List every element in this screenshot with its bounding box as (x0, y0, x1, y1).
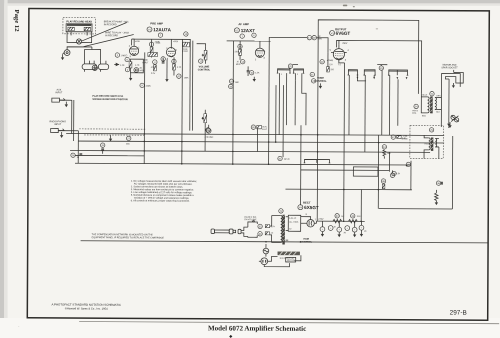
tone control ground (319, 83, 322, 88)
svg-text:560: 560 (387, 153, 390, 155)
pin ref circle below V1 label (158, 33, 162, 37)
wire vertical can leg c (282, 85, 284, 157)
output transformer T1 designator (430, 91, 434, 95)
smudge marks top margin (343, 5, 379, 30)
filter resistor Rb (348, 214, 361, 223)
svg-text:1. DC voltage measurements ta: 1. DC voltage measurements taken with va… (131, 180, 197, 183)
speaker dashed box (410, 125, 444, 158)
svg-text:3. Measured values are from s: 3. Measured values are from socket pin t… (131, 188, 194, 191)
connector bracket P1B (293, 69, 307, 125)
grid leak V2 bottom (229, 79, 239, 84)
ground at connector (452, 83, 455, 88)
svg-text:BREAK AT POINT - MIC: BREAK AT POINT - MIC (104, 20, 129, 23)
right lower refs cluster b (390, 170, 400, 177)
fuse holder (263, 244, 269, 257)
bottom refs stage1 (205, 125, 215, 139)
svg-text:IN RECORD: IN RECORD (104, 24, 117, 26)
wire vertical supply mid (300, 125, 302, 205)
wire vertical stage2 right column (268, 41, 271, 164)
wire V2 to V3 coupling (269, 37, 328, 52)
potentiometer arrow P1 (114, 63, 125, 67)
plate resistor V2 (235, 41, 243, 60)
microphone leads (67, 32, 92, 43)
switch wafer S1A (82, 61, 97, 72)
dual electrolytic ref (251, 125, 268, 131)
grid resistor V2 (236, 59, 245, 65)
speaker ref (429, 128, 433, 132)
svg-text:FIELD: FIELD (424, 143, 430, 145)
svg-text:2. Socket connections are sho: 2. Socket connections are shown as botto… (131, 185, 184, 188)
ground below twisted pair (448, 122, 451, 128)
footer credit text (51, 303, 121, 311)
callout line 1 (82, 22, 127, 41)
wire vertical can leg b (275, 85, 277, 142)
filter wire (316, 221, 364, 223)
bus component cap C at 101 (100, 143, 104, 154)
microphone inner box (66, 24, 92, 32)
coupling refs between V2 and V3 (307, 35, 322, 40)
wire vertical right col b (388, 152, 390, 171)
switch position note (92, 95, 128, 101)
ground at mic jack (61, 55, 64, 61)
ref above stage2 column (229, 84, 233, 88)
ground at aux jack (65, 102, 68, 108)
svg-text:6. All controls at minimum,: 6. All controls at minimum, proper outpu… (131, 199, 190, 202)
coupling cap C2 (161, 57, 165, 63)
tube designator V2 12AX7 (234, 28, 255, 33)
svg-text:6.3V AC: 6.3V AC (289, 217, 297, 220)
wire vertical can leg a (256, 125, 258, 151)
wire horizontal right low (379, 208, 453, 210)
svg-text:470K: 470K (135, 41, 140, 43)
wire mic line (67, 47, 92, 50)
cathode resistor V2 (249, 71, 260, 75)
bus ref 56K (126, 136, 131, 145)
speaker plug ref (377, 65, 387, 136)
svg-text:SHOWN IN RECORD POSITION: SHOWN IN RECORD POSITION (92, 98, 128, 101)
callout line 2 (84, 34, 134, 47)
wire stage1 plate rail (132, 38, 191, 40)
cathode network V3 (327, 67, 335, 72)
resistor hatched horizontal stage1 (148, 53, 158, 57)
wire vertical right col a (377, 135, 379, 208)
wire V1a plate to rail (132, 39, 135, 45)
svg-text:MEG: MEG (236, 64, 241, 66)
bus ref left (71, 153, 82, 159)
svg-text:THE COMPENSATION NETWORK IS: THE COMPENSATION NETWORK IS MOUNTED ON T… (92, 233, 154, 236)
svg-text:275V: 275V (318, 219, 324, 221)
svg-text:CONTROL: CONTROL (300, 241, 312, 244)
V3 pin label T-2 (338, 64, 342, 66)
plate resistor R2 (149, 39, 160, 57)
ground at phono jack (60, 132, 63, 138)
svg-text:CONTROL: CONTROL (198, 68, 211, 71)
wire vertical filter b (360, 190, 362, 222)
wire vertical stage2 column (232, 41, 235, 164)
svg-text:220K: 220K (235, 51, 240, 53)
wire horizontal supply mid (285, 188, 411, 191)
switch hub (92, 65, 97, 70)
microphone dashed enclosure (63, 18, 96, 34)
svg-text:EQUIPMENT PANEL IF REQUIRED: EQUIPMENT PANEL IF REQUIRED TO REPLACE T… (92, 236, 165, 239)
volume control pot (202, 110, 207, 128)
rectifier socket box (288, 215, 300, 231)
svg-text:470 MMF: 470 MMF (205, 137, 215, 139)
svg-text:COIL: COIL (412, 113, 416, 115)
right lower cap (436, 181, 442, 185)
wire B+ rail to output transformer (336, 40, 421, 93)
mid ref np20 (278, 156, 291, 160)
coupling cap to V2 (183, 32, 190, 53)
bottom right small box (353, 167, 378, 176)
capacitor C1 (125, 67, 129, 71)
wire vertical aux column a (71, 100, 73, 133)
sheet number 297-B (450, 310, 467, 317)
switch wafer S1B (98, 61, 108, 72)
cathode resistor V1b (172, 57, 182, 75)
value labels stage1 rail (135, 41, 179, 45)
triode V1a (129, 43, 140, 58)
microphone element right (84, 27, 90, 30)
cathode bypass ref (134, 68, 145, 73)
svg-text:RADIO-PHONO: RADIO-PHONO (49, 120, 66, 123)
output voltage label (318, 219, 324, 221)
svg-text:4. Line voltage maintained at: 4. Line voltage maintained at 117 volts … (131, 191, 193, 194)
svg-text:AF AMP: AF AMP (238, 22, 249, 26)
right lower resistor to ground (435, 190, 439, 205)
svg-text:20: 20 (344, 232, 346, 234)
svg-text:SPKR SOCKET: SPKR SOCKET (441, 67, 458, 69)
callout text 2 (105, 31, 129, 37)
wire volume top (197, 44, 206, 46)
svg-text:1.2K: 1.2K (255, 72, 260, 74)
tube designator V1 12AU7A (147, 27, 172, 32)
wire bus 4 (75, 163, 411, 165)
aux input jack J2 (52, 88, 72, 102)
ground V2 (253, 77, 256, 82)
power transformer T2 (270, 215, 289, 245)
svg-text:297-B: 297-B (450, 310, 467, 317)
stage label PRE AMP (150, 21, 163, 25)
svg-text:IN RECORD: IN RECORD (105, 35, 118, 37)
phono cartridge plug drawing (211, 227, 248, 236)
filter resistor Ra (333, 214, 344, 223)
line filter components (265, 225, 275, 235)
connector legs down (441, 85, 449, 127)
filter cap Cd (344, 226, 350, 235)
svg-text:GRN: GRN (436, 95, 441, 97)
on-off switch label (244, 217, 257, 221)
on-off switch box (248, 220, 257, 237)
svg-text:20: 20 (364, 231, 366, 233)
resistor cluster right mid (391, 135, 407, 140)
svg-text:ALL HTRS: ALL HTRS (289, 221, 299, 224)
wire vertical right col c (410, 161, 412, 190)
bus down arrow (109, 135, 112, 141)
svg-text:INPUT: INPUT (55, 92, 62, 94)
page number label "Page 12" (13, 10, 20, 33)
tube designator V3 6V6GT (330, 30, 351, 35)
wire B+ top loop horizontal (317, 20, 419, 222)
B+ label (342, 43, 348, 45)
resistor 100K lower (177, 74, 190, 79)
transformer side ref (412, 104, 419, 114)
resistor R1 1MEG (115, 53, 128, 57)
svg-text:100K: 100K (184, 77, 189, 79)
svg-text:Model 6072 Amplifier Schematic: Model 6072 Amplifier Schematic (208, 324, 306, 333)
volume control label (198, 65, 211, 71)
svg-text:BLUE: BLUE (422, 94, 428, 96)
microphone jack J1 (62, 50, 70, 56)
rect label (303, 201, 311, 205)
ground at connector leg (447, 124, 450, 128)
speaker label (402, 136, 408, 141)
bottom mid ref (406, 162, 410, 166)
rectifier V4 tube (300, 213, 316, 227)
svg-text:4.7K: 4.7K (177, 67, 182, 69)
stage label OUTPUT (335, 27, 347, 31)
coupling cap V2 (247, 66, 250, 76)
wire stage2 plate rail (227, 40, 271, 42)
bottom mid ref2 (392, 171, 396, 175)
pentode V3 (330, 44, 350, 63)
microphone element left (68, 27, 74, 30)
switch feed wires (85, 47, 101, 61)
compensation note (92, 233, 165, 239)
svg-text:©Howard W. Sams & Co., Inc. 19: ©Howard W. Sams & Co., Inc. 1954 (65, 306, 108, 310)
svg-text:AC voltages measured with 1000: AC voltages measured with 1000 ohm per v… (134, 183, 193, 186)
cathode resistor R3 (151, 60, 157, 75)
svg-text:NP 20: NP 20 (284, 159, 290, 161)
connector ref designator (288, 64, 298, 68)
svg-text:5. Nominal tolerance on compo: 5. Nominal tolerance on component values… (131, 194, 194, 197)
svg-text:PLAY RECORD HEAD: PLAY RECORD HEAD (66, 20, 92, 23)
wire vertical stage1 right column (181, 39, 184, 163)
svg-text:6V6GT: 6V6GT (336, 31, 351, 36)
terminal strip hatched (278, 252, 300, 256)
svg-text:variation of + 15% in voltage: variation of + 15% in voltage and resist… (134, 197, 190, 200)
svg-text:PRE AMP: PRE AMP (150, 21, 163, 25)
svg-text:RED: RED (422, 115, 427, 117)
connector bracket P2B (363, 70, 376, 152)
filter cap Cc (337, 221, 342, 237)
motor circuit outline (271, 255, 300, 261)
svg-text:ELEC: ELEC (262, 129, 268, 131)
ground V1a (129, 73, 132, 81)
wire dashed shield 1 (79, 128, 145, 130)
svg-text:COMP: COMP (183, 51, 189, 53)
wire vertical phase splitter (343, 63, 346, 221)
svg-text:6X5GT: 6X5GT (304, 205, 319, 210)
svg-text:4.7K: 4.7K (135, 65, 140, 67)
connector bracket P2A (347, 70, 366, 135)
svg-text:A PHOTOFACT STANDARD NOTATION: A PHOTOFACT STANDARD NOTATION SCHEMATIC (51, 303, 121, 307)
svg-text:250V: 250V (342, 43, 348, 45)
triode V1b (166, 39, 178, 60)
wire bus 3a short (75, 154, 144, 156)
resistor to ground right mid (382, 145, 390, 159)
V1a lower network box (125, 57, 143, 72)
power transformer T2 designator (279, 209, 283, 213)
wire vertical interstage double b (191, 41, 193, 131)
title "Model 6072 Amplifier Schematic" (208, 324, 306, 338)
wire V3 plate up (338, 40, 340, 44)
connector bracket right of bus (304, 159, 331, 163)
bottom page rule (79, 322, 499, 324)
svg-text:12AX7: 12AX7 (241, 28, 256, 33)
speaker voice coil transformer (424, 135, 439, 152)
motor speaker plug label (441, 64, 458, 70)
svg-text:40: 40 (333, 226, 335, 228)
triode V2 (255, 41, 266, 61)
stage label AF AMP (238, 22, 249, 26)
wire dashed shield 2 (84, 134, 144, 136)
svg-text:12AU7A: 12AU7A (153, 27, 171, 32)
wire vertical stage1 left column (143, 52, 146, 163)
svg-text:1.2K: 1.2K (120, 65, 125, 67)
wire vertical interstage double a (189, 39, 191, 130)
tone control label (314, 77, 327, 83)
stray mark bottom left (18, 325, 20, 330)
tube designator V4 6X5GT (298, 205, 319, 210)
connector bracket P2C (388, 70, 409, 135)
AC plug wires (264, 259, 289, 267)
wire vertical aux column b (73, 100, 75, 141)
svg-text:MOTOR AND: MOTOR AND (443, 64, 457, 67)
radio-phono input jack J3 (49, 120, 78, 132)
svg-text:WIRE TO PLAY - JACK: WIRE TO PLAY - JACK (105, 31, 129, 34)
svg-text:MFD: MFD (139, 70, 144, 72)
svg-text:56K: 56K (235, 82, 239, 84)
microphone label (66, 20, 92, 23)
wire bus 5 (301, 169, 389, 171)
wire vertical right edge (451, 136, 453, 209)
svg-text:CONTROL: CONTROL (314, 80, 327, 83)
grid leak ref bottom (140, 83, 151, 87)
switch refs (258, 224, 262, 236)
pin refs above V2 (240, 33, 256, 38)
svg-text:.01: .01 (76, 157, 79, 159)
filter cap Ce (352, 221, 357, 237)
svg-text:220K: 220K (146, 86, 152, 88)
motor speaker connector comb (441, 70, 463, 89)
motor box (286, 257, 296, 262)
interstage refs right of V2 (310, 72, 316, 83)
bus ref 470ohm (206, 128, 210, 132)
volume pot upper (199, 46, 207, 64)
svg-text:MOTOR: MOTOR (287, 260, 295, 262)
notes list (131, 180, 198, 203)
wire vertical phono jack (77, 131, 79, 163)
hum control label (300, 238, 312, 244)
output transformer T1 (421, 94, 441, 118)
svg-text:ON VOLUME: ON VOLUME (244, 219, 257, 221)
wire bus ground (66, 133, 444, 135)
svg-text:AUX: AUX (57, 88, 62, 91)
wire bus 3 (70, 151, 430, 153)
connector bracket P1A (276, 69, 290, 135)
ground V1b (165, 60, 169, 82)
twisted pair plug (451, 115, 459, 122)
junction dots (143, 133, 379, 243)
wire vertical volume column (204, 128, 206, 151)
right lower refs cluster a (381, 179, 385, 189)
wire long bottom bus (81, 241, 488, 243)
AC plug (259, 258, 268, 265)
grid stopper label (142, 60, 149, 65)
svg-text:1 MEG: 1 MEG (121, 55, 128, 57)
filter cap Ca (320, 221, 325, 237)
svg-text:2.2V: 2.2V (151, 73, 156, 75)
filter cap Cb (328, 226, 335, 231)
svg-text:INPUT: INPUT (54, 124, 61, 126)
svg-text:220K: 220K (156, 43, 161, 45)
filter cap Cf (359, 221, 366, 236)
breakpoint connector X (76, 39, 81, 44)
svg-text:MFD: MFD (318, 39, 323, 41)
svg-text:470K: 470K (173, 41, 178, 43)
svg-text:Page 12: Page 12 (13, 10, 20, 33)
grid resistor V3 (320, 52, 334, 70)
wire bus 2 (78, 141, 444, 143)
terminal strip labels (279, 257, 294, 260)
speaker box bottom leads (424, 147, 439, 159)
bottom speaker leads joint (406, 165, 408, 167)
callout text 1 (104, 20, 129, 26)
